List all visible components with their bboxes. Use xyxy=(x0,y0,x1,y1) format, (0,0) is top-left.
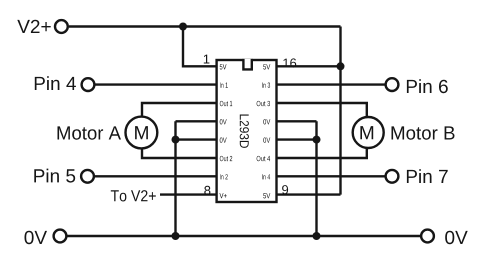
label Pin 5 xyxy=(34,169,75,183)
junction right 0V pins xyxy=(313,136,321,144)
IC notch xyxy=(243,59,251,70)
wire 0V bottom rail xyxy=(67,235,420,237)
junction right 0V on bottom rail xyxy=(313,232,321,240)
pin 9 number xyxy=(282,185,288,194)
pin 8 number xyxy=(204,186,210,195)
pin label 5V (pin 1) xyxy=(220,64,227,69)
pin label In 2 xyxy=(220,174,228,179)
wire V2+ branch down to pin 1 xyxy=(183,27,217,67)
pin label Out 2 xyxy=(220,156,232,161)
terminal Pin 7 xyxy=(386,170,399,183)
pin label 0V right lower xyxy=(263,138,270,143)
label Motor B xyxy=(392,126,455,139)
wire right 0V vertical drop xyxy=(315,121,317,236)
pin 16 number xyxy=(283,58,296,67)
pin label V+ (pin 8) xyxy=(220,193,227,198)
label Pin 4 xyxy=(35,76,76,90)
pin label 5V (pin 9) xyxy=(263,193,270,198)
terminal Pin 6 xyxy=(386,78,399,91)
junction left 0V pins xyxy=(172,136,180,144)
wire pin9 5V to V2+ drop xyxy=(277,193,341,195)
label 0V right xyxy=(445,231,468,245)
terminal 0V left xyxy=(54,230,67,243)
pin label In 1 xyxy=(220,83,228,88)
wire V2+ right vertical drop to pins 16 and 9 xyxy=(339,27,341,195)
terminal V2+ xyxy=(55,20,68,33)
label Motor A xyxy=(58,126,122,139)
label M of motor A xyxy=(135,126,148,139)
wire V+ pin 8 from To V2+ xyxy=(160,193,217,195)
wire 0V upper-right pin xyxy=(277,120,317,122)
wire 0V lower-left pin xyxy=(176,138,218,140)
pin label 0V right upper xyxy=(263,119,270,124)
pin label In 3 xyxy=(262,83,270,88)
IC U1 L293D body xyxy=(217,60,277,202)
wire In2 to Pin 5 terminal xyxy=(94,175,217,177)
pin label Out 4 xyxy=(257,156,271,161)
label To V2+ xyxy=(111,190,156,201)
wire Out3 to Motor B top xyxy=(277,103,367,117)
wire 0V lower-right pin xyxy=(277,138,317,140)
pin label 0V left upper xyxy=(220,119,227,124)
label L293D xyxy=(240,115,249,148)
wire Motor A bottom to Out2 xyxy=(142,148,217,158)
wire In1 to Pin 4 terminal xyxy=(94,83,217,85)
wire In3 to Pin 6 terminal xyxy=(277,83,386,85)
junction pin16 / V2+ drop xyxy=(337,62,345,70)
terminal Pin 4 xyxy=(82,78,95,91)
label Pin 6 xyxy=(407,79,448,93)
label M of motor B xyxy=(360,126,373,139)
pin label 5V (pin 16) xyxy=(263,64,270,69)
label 0V left xyxy=(25,231,48,245)
pin label In 4 xyxy=(262,174,270,179)
wire V2+ top rail xyxy=(69,25,341,27)
pin 1 number xyxy=(204,55,210,64)
wire 0V upper-left pin xyxy=(176,120,218,122)
wire Motor B bottom to Out4 xyxy=(277,148,367,158)
junction left 0V on bottom rail xyxy=(172,232,180,240)
pin label Out 1 xyxy=(220,101,232,106)
motor B circle xyxy=(353,117,384,148)
wire Out1 to Motor A top xyxy=(142,103,217,117)
terminal Pin 5 xyxy=(81,170,94,183)
terminal 0V right xyxy=(421,230,434,243)
wire left 0V vertical drop xyxy=(174,121,176,236)
pin label Out 3 xyxy=(257,101,270,106)
label Pin 7 xyxy=(407,169,448,183)
junction V2+ rail / pin 1 branch xyxy=(179,23,187,31)
motor A circle xyxy=(125,117,157,149)
pin label 0V left lower xyxy=(220,138,227,143)
wire pin16 5V to V2+ drop xyxy=(277,65,341,67)
wire In4 to Pin 7 terminal xyxy=(277,175,386,177)
label V2+ xyxy=(17,20,50,33)
